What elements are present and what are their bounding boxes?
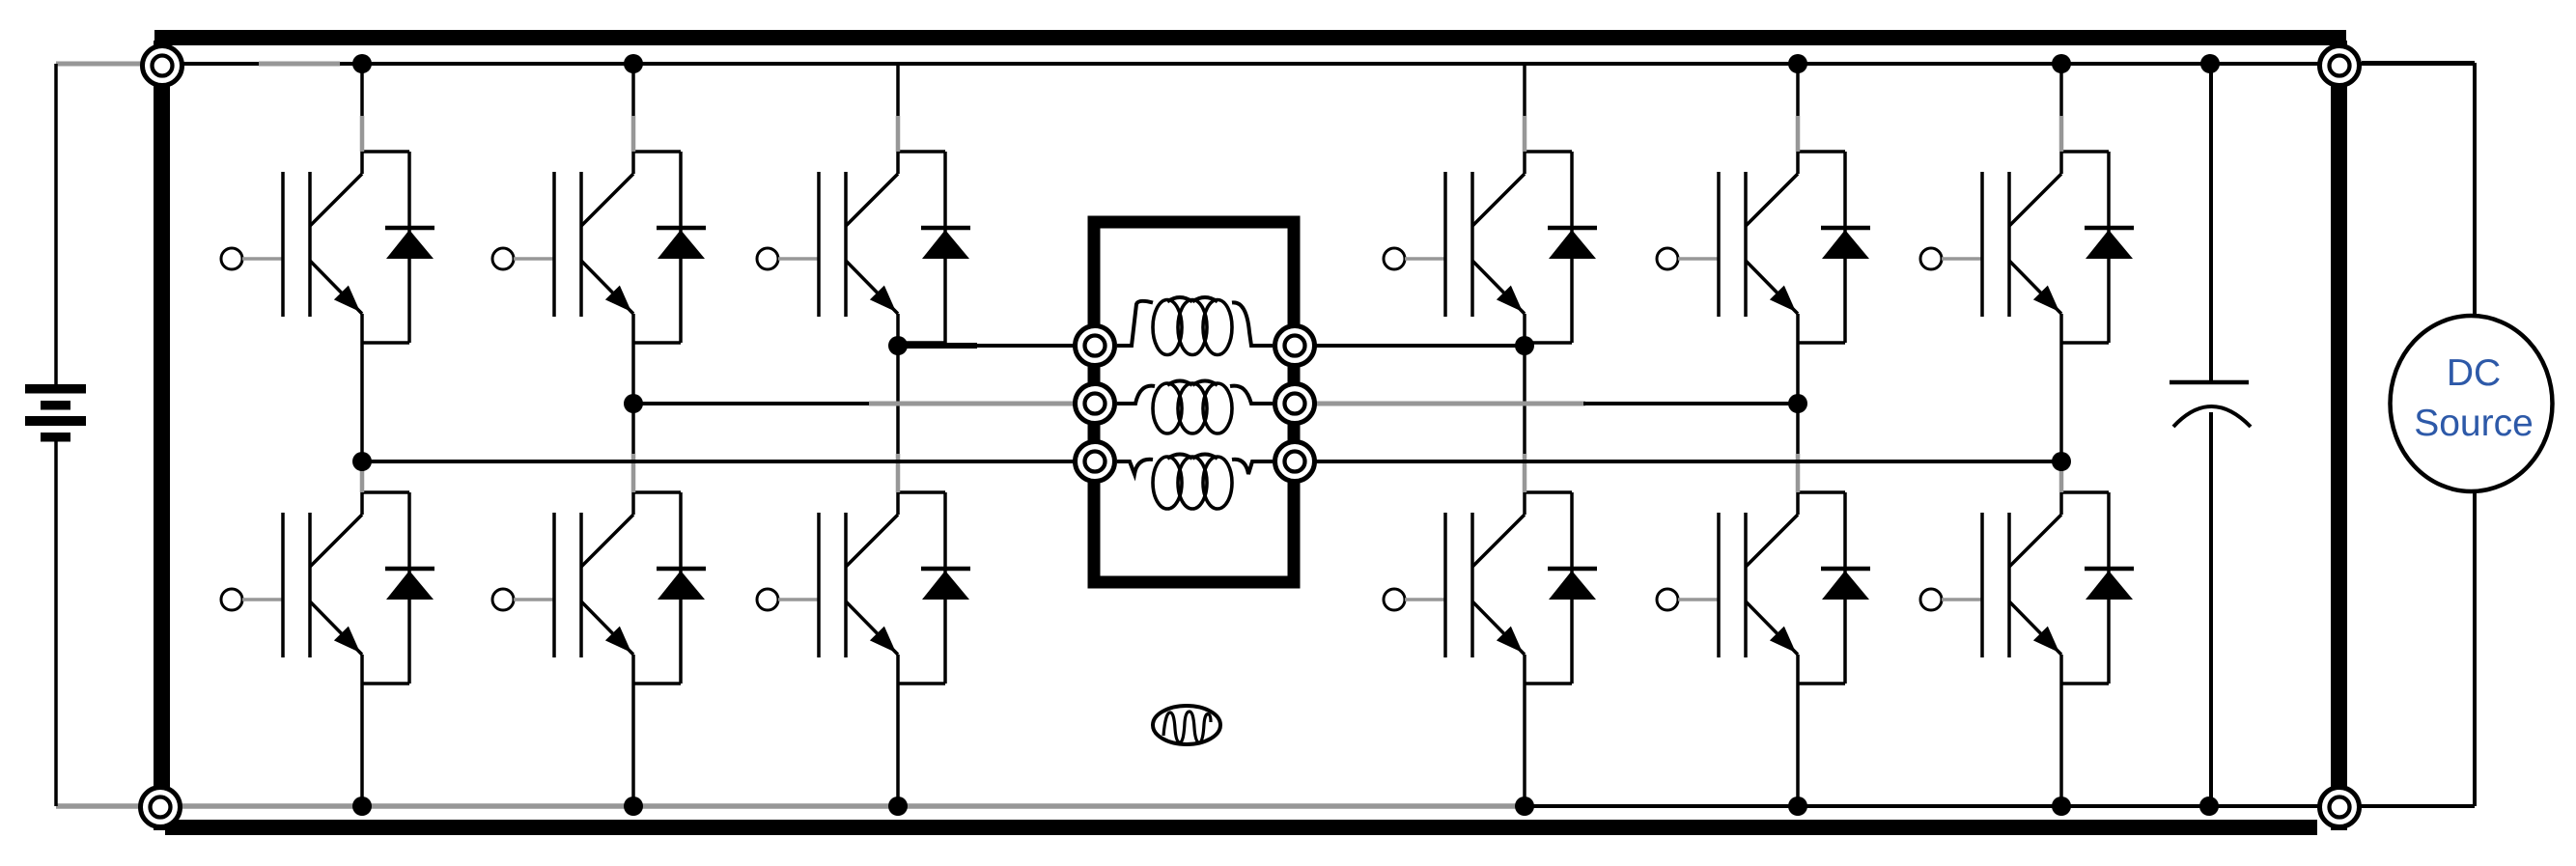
svg-text:Source: Source (2414, 403, 2534, 444)
svg-text:DC: DC (2447, 352, 2501, 394)
